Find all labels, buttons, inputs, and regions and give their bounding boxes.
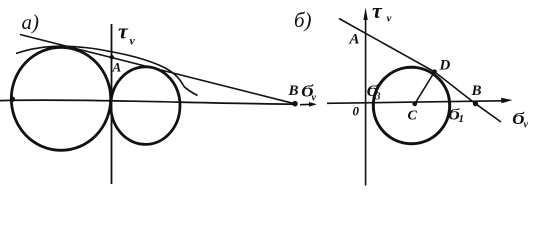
svg-text:B: B xyxy=(288,83,299,99)
svg-text:б): б) xyxy=(294,8,312,32)
svg-text:0: 0 xyxy=(353,104,360,119)
svg-text:ν: ν xyxy=(312,93,317,104)
svg-text:D: D xyxy=(439,58,451,74)
svg-text:A: A xyxy=(112,60,122,75)
svg-text:τ: τ xyxy=(372,0,383,23)
svg-text:B: B xyxy=(471,83,482,99)
svg-text:τ: τ xyxy=(118,19,129,44)
svg-text:ν: ν xyxy=(524,120,529,131)
svg-text:1: 1 xyxy=(459,113,465,125)
svg-text:3: 3 xyxy=(375,92,381,103)
svg-text:а): а) xyxy=(22,10,40,34)
svg-text:C: C xyxy=(408,109,418,124)
svg-text:ν: ν xyxy=(130,34,136,48)
svg-text:A: A xyxy=(349,32,360,48)
svg-text:ν: ν xyxy=(387,13,392,25)
